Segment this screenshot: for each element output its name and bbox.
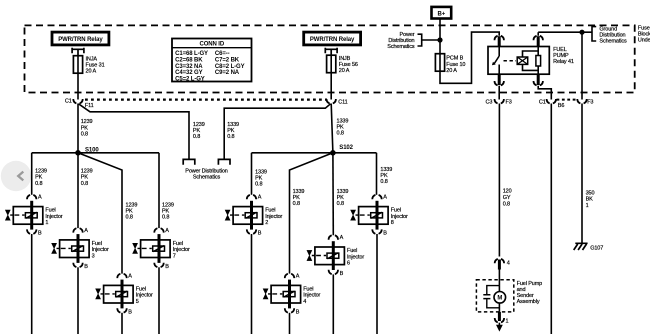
svg-text:B: B (165, 264, 169, 270)
svg-text:Schematics: Schematics (193, 175, 221, 181)
svg-text:C7=2 BK: C7=2 BK (215, 58, 240, 64)
fuel pump capacitor branch (487, 286, 500, 308)
label 1339 PK 0.8 (C11-S102) (337, 119, 349, 137)
label 1239 PK 0.8 (inj1) (35, 169, 47, 187)
svg-text:Fuel: Fuel (136, 287, 146, 293)
power distribution staple (left) (183, 159, 195, 164)
svg-text:Underh: Underh (638, 37, 650, 43)
node power distribution tap (437, 37, 442, 42)
svg-text:Schematics: Schematics (599, 38, 627, 44)
svg-text:C2=68 BK: C2=68 BK (175, 58, 203, 64)
relay switch top pin connector (495, 36, 504, 40)
svg-text:1239: 1239 (81, 169, 93, 175)
relay coil top pin connector (534, 36, 543, 40)
svg-text:PUMP: PUMP (553, 53, 569, 59)
svg-text:1239: 1239 (35, 169, 47, 175)
svg-text:0.8: 0.8 (337, 201, 344, 207)
wire C11 to power distribution drop (224, 104, 330, 160)
svg-text:Schematics: Schematics (387, 44, 415, 50)
fuel injector 2 (225, 195, 282, 237)
svg-text:Fuel: Fuel (303, 287, 313, 293)
svg-text:A: A (38, 195, 42, 201)
svg-text:0.8: 0.8 (337, 131, 344, 137)
power distribution schematics bracket (top) (387, 32, 440, 50)
fuel pump relay 41 box (488, 47, 574, 75)
wire S102 to injector 8 (376, 153, 378, 195)
label 1339 PK 0.8 (inj4) (293, 189, 305, 207)
PWR/TRN Relay box (right) (304, 32, 361, 45)
wire F3 to G107 (581, 104, 583, 244)
svg-text:C9=2 NA: C9=2 NA (215, 70, 240, 76)
fuel injector 7 (133, 228, 190, 270)
svg-text:350: 350 (586, 190, 595, 196)
wire injector 2 to bottom (251, 234, 253, 334)
svg-text:Fuel: Fuel (391, 208, 401, 214)
label 1239 PK 0.8 (inj3) (81, 169, 93, 187)
svg-text:1: 1 (586, 203, 589, 209)
node ground distribution tap (579, 30, 584, 35)
dashed wire B6 (557, 100, 578, 110)
splice S102 (330, 145, 354, 156)
svg-text:0.8: 0.8 (193, 134, 200, 140)
svg-text:A: A (296, 274, 300, 280)
fuel pump pin 1 (495, 312, 509, 325)
svg-text:B: B (128, 309, 132, 315)
power distribution schematics label (185, 168, 228, 180)
connector C1 F11 (65, 99, 94, 109)
svg-text:C1: C1 (65, 99, 72, 105)
svg-text:Fuel: Fuel (45, 208, 55, 214)
label 1239 PK 0.8 (PD drop) (193, 122, 205, 140)
svg-text:F3: F3 (506, 100, 512, 106)
svg-text:PK: PK (81, 175, 89, 181)
svg-text:1339: 1339 (227, 122, 239, 128)
svg-text:0.8: 0.8 (81, 181, 88, 187)
svg-text:2: 2 (265, 220, 268, 226)
relay linkage dashes (504, 60, 517, 62)
svg-text:1339: 1339 (255, 169, 267, 175)
svg-text:8: 8 (391, 220, 394, 226)
fuel injector 5 (96, 274, 153, 316)
svg-text:PK: PK (337, 195, 345, 201)
svg-text:Fuse 56: Fuse 56 (339, 62, 358, 68)
relay coil bottom stub (537, 74, 540, 85)
carousel prev button (1, 161, 31, 191)
svg-text:Injector: Injector (92, 247, 109, 253)
fuse INJB Fuse 56 20 A (327, 55, 358, 74)
svg-text:1: 1 (506, 319, 509, 325)
svg-text:CONN ID: CONN ID (199, 42, 224, 48)
power distribution staple (right) (218, 159, 230, 164)
svg-text:5: 5 (136, 299, 139, 305)
S102 bus horizontal (252, 152, 377, 154)
wire C3 to fuel pump pin 4 (498, 104, 500, 257)
svg-text:3: 3 (92, 253, 95, 259)
wire injector 1 to bottom (31, 234, 33, 334)
svg-text:1339: 1339 (380, 167, 392, 173)
svg-text:Assembly: Assembly (517, 299, 540, 305)
svg-text:F11: F11 (85, 103, 94, 109)
wire S100 to injector 5 (78, 153, 122, 274)
wire S100 to injector 7 (158, 153, 160, 228)
CONN ID table (172, 39, 252, 83)
svg-text:PK: PK (81, 125, 89, 131)
fuel injector 4 (263, 274, 320, 316)
label 1339 PK 0.8 (inj8) (380, 167, 392, 185)
relay terminal (left) (72, 48, 84, 56)
svg-text:Fuse 10: Fuse 10 (446, 62, 465, 68)
label 1239 PK 0.8 (C1-S100) (81, 119, 93, 137)
PWR/TRN Relay box (left) (52, 32, 109, 45)
svg-text:B+: B+ (437, 11, 445, 17)
wire injector 5 to bottom (121, 313, 123, 334)
relay resistor (536, 56, 541, 67)
svg-text:C5=2 L-GY: C5=2 L-GY (175, 76, 205, 82)
wire C1 to bottom (550, 104, 552, 334)
wire to C3 (498, 86, 500, 100)
svg-text:Injector: Injector (265, 214, 282, 220)
ground distribution schematics bracket (592, 26, 627, 44)
wire ground distribution drop (581, 32, 583, 99)
svg-text:Fuel: Fuel (347, 248, 357, 254)
svg-text:A: A (383, 195, 387, 201)
svg-text:1339: 1339 (337, 189, 349, 195)
svg-text:G107: G107 (590, 246, 603, 252)
svg-text:B: B (84, 264, 88, 270)
relay coil top stub (537, 36, 540, 46)
svg-text:1339: 1339 (337, 119, 349, 125)
svg-text:7: 7 (173, 253, 176, 259)
svg-text:120: 120 (503, 189, 512, 195)
svg-text:Injector: Injector (173, 247, 190, 253)
svg-text:Injector: Injector (45, 214, 62, 220)
fuel injector 1 (5, 195, 62, 237)
svg-text:PK: PK (380, 173, 388, 179)
label 1239 PK 0.8 (inj5) (126, 202, 138, 220)
wire injector 4 to bottom (289, 313, 291, 334)
svg-text:0.8: 0.8 (380, 179, 387, 185)
svg-text:C1=68 L-GY: C1=68 L-GY (175, 51, 208, 57)
svg-text:A: A (258, 195, 262, 201)
svg-text:20 A: 20 A (86, 69, 97, 75)
wire injector 8 to bottom (376, 234, 378, 334)
svg-text:0.8: 0.8 (255, 182, 262, 188)
fuel injector 8 (351, 195, 408, 237)
svg-text:A: A (84, 228, 88, 234)
svg-text:C1: C1 (539, 100, 546, 106)
svg-text:Fuel: Fuel (265, 208, 275, 214)
connector F3 (right) (577, 99, 593, 106)
svg-text:0.8: 0.8 (293, 201, 300, 207)
fuel injector 6 (307, 235, 364, 277)
fuse PCM B Fuse 10 20 A (435, 54, 465, 74)
svg-text:0.8: 0.8 (35, 181, 42, 187)
svg-text:Fuel: Fuel (92, 241, 102, 247)
relay switch (492, 47, 499, 75)
wire injector 7 to bottom (158, 267, 160, 334)
label 1339 PK 0.8 (PD drop) (227, 122, 239, 140)
svg-text:PK: PK (227, 128, 235, 134)
svg-text:C4=32 GY: C4=32 GY (175, 70, 202, 76)
wire C11 to S102 (331, 104, 333, 153)
wire C1 to power distribution drop (79, 104, 190, 160)
svg-text:PWR/TRN Relay: PWR/TRN Relay (310, 37, 355, 43)
fuel pump motor (494, 286, 506, 312)
svg-text:Fuel: Fuel (173, 241, 183, 247)
fuel pump and sender assembly dashed box (476, 280, 542, 312)
relay switch bottom stub (498, 74, 501, 85)
wire jog to C1 (538, 86, 551, 100)
svg-text:B: B (296, 309, 300, 315)
svg-text:B6: B6 (558, 103, 565, 109)
svg-text:1239: 1239 (193, 122, 205, 128)
connector C3 F3 (486, 99, 512, 106)
S100 bus horizontal (32, 152, 159, 154)
wire S102 to injector 2 (251, 153, 253, 195)
svg-text:1239: 1239 (162, 202, 174, 208)
svg-text:A: A (128, 274, 132, 280)
svg-text:0.8: 0.8 (81, 131, 88, 137)
svg-text:1: 1 (45, 220, 48, 226)
svg-text:BK: BK (586, 197, 594, 203)
svg-text:PK: PK (35, 175, 43, 181)
svg-text:1339: 1339 (293, 189, 305, 195)
svg-text:B: B (383, 231, 387, 237)
svg-text:C8=2 L-GY: C8=2 L-GY (215, 64, 245, 70)
wire fuse INJA to C1 (77, 73, 79, 99)
svg-text:0.8: 0.8 (227, 134, 234, 140)
svg-text:6: 6 (347, 261, 350, 267)
svg-text:Relay 41: Relay 41 (553, 59, 574, 65)
off-page arrow (496, 323, 503, 332)
label 1239 PK 0.8 (inj7) (162, 202, 174, 220)
svg-text:Fuse 31: Fuse 31 (86, 62, 105, 68)
svg-text:20 A: 20 A (446, 68, 457, 74)
relay switch top stub (498, 36, 501, 46)
svg-text:GY: GY (503, 195, 511, 201)
svg-text:PK: PK (193, 128, 201, 134)
fuel pump pin 4 (495, 259, 510, 286)
wire B+ down to fuse (439, 19, 441, 54)
label 1339 PK 0.8 (inj6) (337, 189, 349, 207)
wire S102 to injector 4 (290, 153, 333, 274)
wire injector 3 to bottom (77, 267, 79, 334)
svg-text:INJB: INJB (339, 56, 351, 62)
splice S100 (75, 147, 99, 155)
svg-text:PWR/TRN Relay: PWR/TRN Relay (58, 37, 103, 43)
wire S100 to injector 3 (77, 153, 79, 228)
fuse block underhood dashed box (25, 25, 635, 92)
svg-text:C11: C11 (338, 99, 347, 105)
relay coil bottom connector (534, 81, 543, 85)
wire coil pin to ground distribution (538, 32, 592, 36)
svg-text:PK: PK (293, 195, 301, 201)
svg-text:Injector: Injector (303, 293, 320, 299)
svg-text:0.8: 0.8 (503, 201, 510, 207)
svg-text:Injector: Injector (391, 214, 408, 220)
wire S102 to injector 6 (332, 153, 334, 235)
svg-text:PK: PK (126, 208, 134, 214)
svg-text:A: A (165, 228, 169, 234)
svg-text:C3=32 NA: C3=32 NA (175, 64, 203, 70)
connector C11 (327, 99, 348, 105)
svg-text:20 A: 20 A (339, 68, 350, 74)
connector C1 (539, 99, 556, 106)
svg-text:M: M (497, 296, 502, 302)
svg-text:Injector: Injector (136, 293, 153, 299)
dashed bus C1 to C11 (85, 98, 327, 100)
fuse INJA Fuse 31 20 A (73, 56, 104, 75)
label 1339 PK 0.8 (inj2) (255, 169, 267, 187)
relay coil (517, 47, 538, 75)
svg-text:1239: 1239 (126, 202, 138, 208)
relay terminal (right) (325, 48, 337, 56)
capacitor plates (483, 295, 490, 299)
wire fuse INJB to C11 (330, 73, 332, 100)
fuel injector 3 (52, 228, 109, 270)
svg-text:Power Distribution: Power Distribution (185, 168, 228, 174)
wire S100 to injector 1 (31, 153, 33, 195)
svg-text:4: 4 (507, 261, 510, 267)
svg-text:0.8: 0.8 (162, 215, 169, 221)
svg-text:C3: C3 (486, 100, 493, 106)
label 350 BK 1 (586, 190, 595, 209)
svg-text:INJA: INJA (86, 56, 98, 62)
svg-text:FUEL: FUEL (553, 47, 567, 53)
svg-text:PK: PK (162, 208, 170, 214)
svg-text:Injector: Injector (347, 254, 364, 260)
B+ box (432, 7, 452, 19)
label 120 GY 0.8 (503, 189, 512, 208)
svg-text:4: 4 (303, 299, 306, 305)
relay switch bottom connector (495, 81, 504, 85)
svg-text:F3: F3 (587, 100, 593, 106)
wire C1 to S100 (77, 104, 79, 153)
svg-text:S102: S102 (339, 145, 353, 151)
svg-text:A: A (340, 235, 344, 241)
svg-text:0.8: 0.8 (126, 215, 133, 221)
wire PCM fuse to relay switch pin (440, 32, 499, 83)
svg-text:B: B (258, 231, 262, 237)
svg-text:B: B (38, 231, 42, 237)
svg-text:PCM B: PCM B (446, 56, 463, 62)
ground G107 (574, 243, 604, 251)
svg-text:B: B (340, 271, 344, 277)
svg-text:PK: PK (337, 125, 345, 131)
svg-text:1239: 1239 (81, 119, 93, 125)
wire injector 6 to bottom (332, 274, 334, 334)
svg-text:C6=--: C6=-- (215, 51, 230, 57)
svg-text:PK: PK (255, 176, 263, 182)
